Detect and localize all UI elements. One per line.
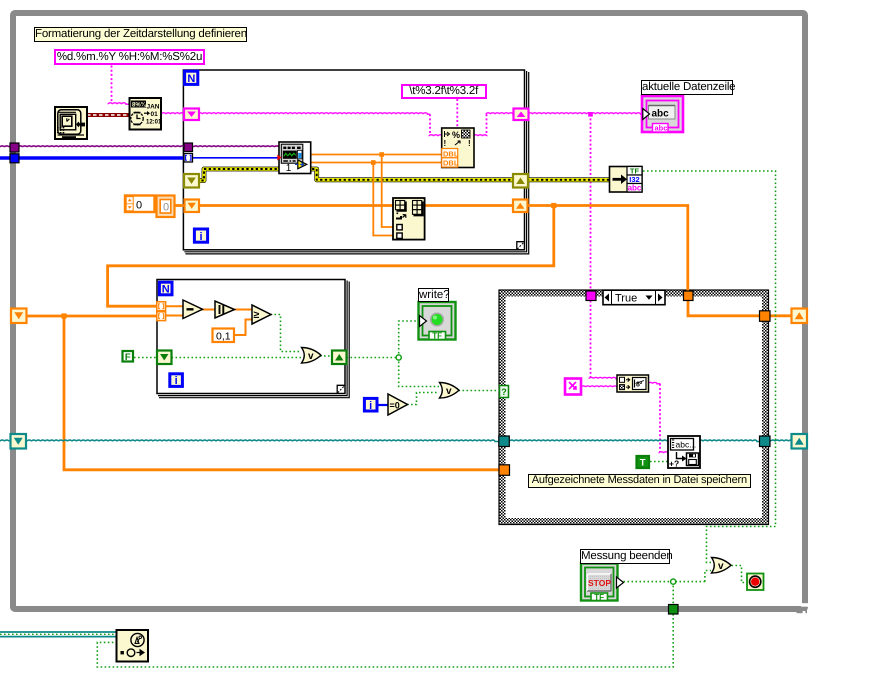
coercion dot red on waveform node (277, 155, 281, 161)
svg-text:i: i (175, 375, 178, 387)
wire: green OR2 output exiting loop2 (320, 355, 333, 357)
constant: T (true) (637, 456, 650, 469)
terminal: i feeding =0 (364, 398, 377, 411)
tunnel: orange tunnel loop1 left (185, 200, 200, 213)
indicator: aktuelle Datenzeile string (abc) (642, 96, 683, 133)
wire: error cluster wire (yellow/black) loop1 to unbundler (192, 169, 610, 181)
svg-text:1: 1 (286, 163, 292, 174)
wire: orange from while-frame tunnel to loop2 (26, 315, 158, 318)
svg-text:STOP: STOP (588, 578, 611, 588)
node: index waveform / chart icon (277, 142, 310, 174)
node: Get Date/Time In Seconds (55, 107, 87, 139)
svg-text:8%¾: 8%¾ (132, 102, 147, 109)
case structure border (True case, checkered) (499, 290, 769, 525)
svg-text:=0: =0 (390, 401, 400, 411)
svg-text:v: v (446, 386, 452, 397)
svg-text:True: True (615, 293, 637, 305)
svg-text:TF: TF (432, 332, 442, 341)
svg-text:abc...: abc... (676, 440, 697, 450)
svg-text:i: i (369, 400, 372, 412)
tunnel: orange tunnel case top (684, 291, 694, 301)
wire: green branch down to OR3 (399, 358, 439, 387)
label: Aufgezeichnete Messdaten in Datei speichern (528, 474, 751, 488)
wire: green boolean unbundler TF out, around right side to OR gate (643, 171, 776, 563)
wire: blue i terminal to =0 (379, 404, 389, 406)
terminal: N of loop1 (185, 71, 198, 85)
tunnel: pink tunnel loop1 left (184, 109, 199, 121)
wire: pink string \t%3.2f constant into node (456, 99, 458, 129)
constant: time format string (54, 49, 205, 65)
node: build/replace array (393, 198, 425, 240)
junction: orange dot on frame wire (61, 313, 66, 318)
svg-text:N: N (162, 284, 170, 296)
svg-text:0,1: 0,1 (216, 330, 231, 342)
tunnel: teal tunnel case left (499, 436, 510, 447)
wire: timestamp wire (dark red dashed) (87, 113, 130, 117)
junction: pink wire branch dot (588, 112, 593, 117)
node: Format Date/Time String (130, 98, 163, 130)
wire: green F constant into loop2 (134, 357, 158, 359)
wire: pink string inside loop1 to Format Into String (198, 113, 430, 114)
wire: green =0 output to OR3 (407, 393, 439, 405)
node: wait until next ms multiple (metronome) (117, 630, 149, 662)
wire: pink string node to Write File node (648, 382, 661, 383)
svg-text:12:01: 12:01 (146, 120, 162, 126)
tunnel: orange tunnel on while frame left (11, 309, 27, 324)
label: aktuelle Datenzeile (641, 80, 733, 95)
tunnel: case selector ? terminal (500, 386, 509, 398)
wire: purple waveform wire into loop 1 (0, 146, 279, 147)
wire: orange branch down to case left tunnel (64, 316, 500, 470)
wire: orange array constant to loop1 tunnel (175, 204, 186, 207)
tunnel: green tunnel loop2 right (332, 351, 347, 365)
svg-text:01: 01 (151, 111, 159, 118)
wire: green OR4 output to loop condition terminal (732, 566, 748, 583)
control: Messung beenden stop button (581, 564, 624, 602)
tunnel: teal tunnel on while frame right (792, 434, 808, 449)
wire: green branch up to write? indicator (399, 321, 420, 358)
terminal: loop condition stop sign (747, 574, 764, 591)
node: Format Into String (442, 128, 474, 168)
junction: orange dot at loop1 exit branch (551, 203, 556, 208)
tunnel: green tunnel on while frame bottom (669, 605, 679, 615)
wire: orange main array wire through loop1 (198, 204, 513, 207)
wire: teal path wire at bottom into wait node (0, 631, 117, 633)
tunnel: teal tunnel case right (760, 436, 771, 447)
wire: orange subtract to abs to gte (202, 309, 215, 311)
tunnel: orange tunnel case left (499, 465, 510, 476)
svg-text:0: 0 (136, 200, 142, 212)
wire: green inside loop2 to OR gate (172, 357, 302, 359)
svg-text:i: i (199, 231, 202, 243)
tunnel: blue auto-index loop1 left (184, 154, 193, 163)
wire: orange inside case to right tunnel (688, 301, 760, 316)
wire: orange case exit to frame tunnel (771, 314, 794, 317)
node: equal to 0? (388, 394, 408, 415)
tunnel: olive error tunnel loop1 left (184, 174, 199, 188)
junction: green ring at loop2 output branch (396, 355, 401, 360)
constant: \t%3.2f format string (401, 84, 487, 99)
svg-text:N: N (187, 73, 195, 85)
for loop 2 border (157, 280, 349, 398)
svg-text:JAN: JAN (147, 104, 160, 111)
wire: pink string Format Date/Time to loop1 tunnel (162, 113, 186, 114)
tunnel: pink tunnel case top (586, 291, 596, 301)
constant: F (false) (123, 351, 134, 363)
label: Formatierung der Zeitdarstellung definieren (34, 27, 247, 42)
svg-text:DBL: DBL (443, 149, 459, 158)
node: write characters to file (668, 436, 700, 469)
svg-text:?: ? (501, 387, 507, 397)
tunnel: purple tunnel on while frame (10, 143, 19, 152)
tunnel: orange tunnel loop1 right (513, 200, 528, 213)
wire: green gte output to OR gate (271, 315, 302, 352)
wire: pink string node output up and out of loop1 (474, 135, 488, 136)
node: greater or equal (252, 305, 271, 324)
constant: numeric 0 control (125, 196, 155, 213)
svg-text:%: % (452, 130, 460, 140)
svg-text:v: v (718, 561, 724, 572)
wire: orange 0,1 constant to gte (234, 320, 252, 336)
svg-text:v: v (308, 351, 314, 362)
frame corner notch (797, 603, 810, 613)
label: write? (418, 288, 449, 302)
wire: orange inside loop2 to subtract (166, 305, 185, 307)
wire: orange loop1 exit to case structure (528, 206, 688, 292)
tunnel: orange auto-index loop2 left 1 (157, 302, 166, 311)
constant: array 0 element (157, 196, 175, 218)
tunnel: orange tunnel on while frame right (792, 309, 808, 324)
wire: orange branch down-left to for loop 2 (108, 206, 554, 307)
svg-text:abc: abc (652, 109, 670, 120)
wire: orange DBL branches down to array node (382, 155, 398, 228)
wire: pink string branch down into case structure (590, 114, 592, 290)
case selector label [True] (603, 290, 665, 305)
tunnel: orange auto-index loop2 left 2 (157, 312, 166, 321)
tunnel: orange tunnel case right (760, 311, 771, 322)
tunnel: blue tunnel on while frame (10, 154, 19, 163)
op: OR gate in loop2 (302, 348, 322, 364)
wire: green stop button to junction and OR4 (624, 581, 705, 583)
label: Messung beenden (580, 549, 670, 564)
node: unbundle error cluster (TF I32 abc) (610, 167, 643, 193)
for loop 1 border (183, 70, 528, 254)
svg-text:F: F (125, 352, 131, 363)
node: subtract (183, 300, 203, 319)
svg-text:abc: abc (655, 124, 668, 133)
node: absolute value (215, 301, 235, 318)
svg-text:DBL: DBL (443, 159, 459, 168)
svg-text:TF: TF (594, 593, 604, 602)
tunnel: purple shift tunnel loop1 left (184, 143, 193, 152)
svg-text:abc: abc (628, 184, 642, 193)
wire: blue array wire into loop 1 (0, 156, 186, 160)
svg-text:0: 0 (163, 201, 169, 213)
op: OR gate before stop terminal (712, 558, 732, 574)
wire: green OR3 output to case selector tunnel (459, 390, 501, 392)
junction: orange dots on DBL wires (379, 152, 384, 157)
svg-text:+?: +? (669, 459, 679, 469)
svg-text:≥: ≥ (254, 309, 260, 321)
constant: Not A Path (magenta) (565, 379, 581, 395)
tunnel: green tunnel loop2 left (157, 351, 172, 365)
tunnel: teal tunnel on while frame left (11, 434, 27, 449)
junction: green ring at stop button branch (671, 579, 676, 584)
indicator: write? boolean LED (419, 302, 456, 341)
wire: green junction down through frame tunnel to wait node (672, 582, 674, 605)
wire: pink string from time-format constant down to Format Date/Time node (111, 66, 113, 103)
while loop frame (13, 13, 805, 609)
svg-text:T: T (640, 458, 646, 469)
wire: teal path wire across diagram (0, 440, 499, 441)
wire: pink string loop1 exit to string indicator (528, 113, 643, 114)
terminal: i of loop1 (194, 229, 207, 243)
terminal: N of loop2 (159, 282, 172, 295)
wire: pink string Not-a-Path constant to node (581, 386, 617, 387)
wire: green T constant to write file node (650, 461, 669, 463)
svg-text:!: ! (468, 139, 471, 148)
node: array to spreadsheet string (617, 375, 649, 392)
wire: orange DBL wires waveform node to Format Into String (311, 154, 443, 156)
constant: 0,1 (213, 329, 235, 343)
terminal: i of loop2 (170, 374, 183, 387)
tunnel: olive error tunnel loop1 right (513, 174, 528, 188)
svg-text:!: ! (444, 139, 447, 148)
op: OR gate before case (440, 383, 460, 399)
tunnel: pink tunnel loop1 right (514, 109, 529, 121)
